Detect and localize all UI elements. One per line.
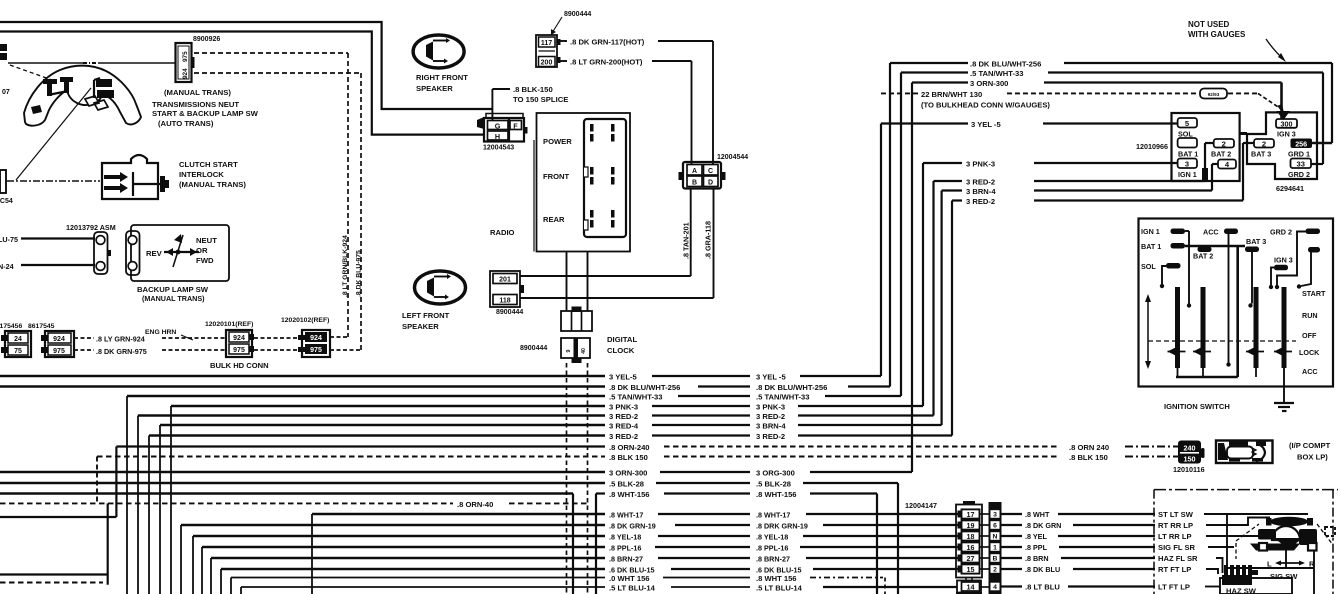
ignition pin SOL: [1166, 263, 1181, 269]
svg-text:2: 2: [1262, 140, 1266, 149]
svg-text:RUN: RUN: [1302, 311, 1318, 320]
svg-text:3 RED-2: 3 RED-2: [966, 178, 995, 187]
svg-text:(TO BULKHEAD CONN W/GAUGES): (TO BULKHEAD CONN W/GAUGES): [921, 101, 1050, 110]
svg-text:ST LT SW: ST LT SW: [1158, 510, 1194, 519]
wire sig sw bottom rail: [1227, 567, 1314, 569]
pin BAT 1: [1178, 138, 1197, 148]
svg-text:3 PNK-3: 3 PNK-3: [966, 160, 995, 169]
svg-text:17: 17: [967, 510, 975, 519]
clutch start interlock outline: [102, 155, 158, 199]
connector strip cell 2: [990, 565, 1000, 574]
ignition switch bar 3: [1254, 287, 1259, 368]
digital clock connector lower: [561, 338, 590, 358]
ignition travel double arrow: [1147, 301, 1149, 362]
svg-text:INTERLOCK: INTERLOCK: [179, 170, 224, 179]
svg-text:200: 200: [541, 60, 553, 67]
svg-text:IGN 1: IGN 1: [1141, 227, 1160, 236]
wire .8 BRN to HAZ FL SR: [980, 557, 991, 559]
svg-text:B: B: [993, 556, 998, 563]
svg-text:8900926: 8900926: [193, 36, 220, 43]
wire bus .8 BRN-27: [211, 557, 605, 560]
svg-text:REV: REV: [146, 249, 163, 258]
wire .8 YEL to LT RR LP: [980, 535, 991, 537]
svg-text:SOL: SOL: [1141, 262, 1156, 271]
connector strip cell 3: [990, 510, 1000, 519]
svg-text:.8 LT BLU: .8 LT BLU: [1025, 583, 1060, 592]
svg-text:3 RED-2: 3 RED-2: [756, 412, 785, 421]
svg-text:33: 33: [1296, 160, 1304, 169]
svg-text:START & BACKUP LAMP SW: START & BACKUP LAMP SW: [152, 109, 259, 118]
svg-text:240: 240: [1184, 444, 1196, 453]
ignition dashed lock line: [1148, 340, 1296, 342]
wire bus .8 ORN-240: [0, 516, 116, 518]
svg-text:117: 117: [541, 40, 552, 47]
svg-text:HAZ SW: HAZ SW: [1226, 587, 1257, 594]
connector strip cell 1: [990, 543, 1000, 552]
sig sw left contact blob: [1258, 529, 1276, 540]
svg-text:.8 DK BLU: .8 DK BLU: [1025, 565, 1060, 574]
svg-text:12004544: 12004544: [717, 154, 748, 161]
connector strip cell 6: [990, 521, 1000, 530]
svg-text:.8 LT GRN/BLK-924: .8 LT GRN/BLK-924: [342, 235, 349, 297]
wire .8 DK BLU-75: [21, 237, 95, 239]
svg-text:924: 924: [310, 335, 322, 342]
svg-text:CLUTCH START: CLUTCH START: [179, 160, 238, 169]
wire .8 DK GRN to RT RR LP: [980, 524, 991, 526]
wire 3 BRN-4 top: [942, 189, 962, 191]
wire dashed .8 DK GRN-975: [74, 349, 94, 351]
clutch interlock terminal arrows: [104, 175, 120, 179]
backup lamp switch box: [131, 225, 229, 281]
wire radio to clock left: [566, 252, 568, 312]
ignition pin BAT2: [1198, 247, 1212, 253]
svg-text:.8 DK GRN-117(HOT): .8 DK GRN-117(HOT): [570, 38, 645, 47]
connector 8900444 (117/200): [536, 35, 557, 67]
connector 12004544 A/C/B/D: [683, 162, 721, 189]
svg-text:POWER: POWER: [543, 137, 572, 146]
svg-text:12020102(REF): 12020102(REF): [281, 317, 329, 324]
svg-text:F: F: [513, 122, 518, 131]
svg-text:3: 3: [1185, 160, 1189, 169]
wire 22 BRN/WHT 130 dashed: [881, 92, 919, 94]
wire clock pin9 dashed: [566, 363, 568, 594]
svg-text:3 RED-4: 3 RED-4: [609, 422, 639, 431]
wire bus 3 PNK-3: [171, 405, 605, 408]
connector 12010116 (240/150): [1178, 441, 1201, 464]
svg-text:24: 24: [14, 336, 22, 343]
svg-text:BOX LP): BOX LP): [1297, 453, 1328, 462]
svg-text:GRD 1: GRD 1: [1288, 150, 1310, 159]
connector 12020101: [226, 330, 252, 357]
svg-text:3 RED-2: 3 RED-2: [609, 432, 638, 441]
wire bus .8 YEL-18: [193, 535, 605, 538]
svg-text:OR: OR: [196, 246, 208, 255]
svg-text:3 RED-2: 3 RED-2: [756, 432, 785, 441]
pin 2 BAT 3: [1254, 139, 1274, 148]
sig sw assembly border right: [1332, 490, 1334, 594]
svg-text:40: 40: [581, 348, 587, 354]
svg-text:(AUTO TRANS): (AUTO TRANS): [158, 119, 214, 128]
svg-text:.8 DK BLU/WHT-256: .8 DK BLU/WHT-256: [756, 383, 827, 392]
wire bus 3 RED-2 second: [149, 434, 605, 437]
svg-text:.8 YEL: .8 YEL: [1025, 532, 1047, 541]
wire stub bottom-left dashed: [0, 582, 103, 584]
svg-text:H: H: [495, 132, 500, 141]
ignition bar stubs: [1177, 368, 1179, 377]
svg-text:.8 DK BLU-975: .8 DK BLU-975: [356, 250, 363, 297]
wire HAZ FL SR into switch: [1216, 558, 1223, 573]
wire dashed 975 from connector 8900926: [194, 72, 361, 74]
svg-text:.8 WHT-156: .8 WHT-156: [756, 490, 797, 499]
svg-text:.8 DK BLU/WHT-256: .8 DK BLU/WHT-256: [609, 383, 680, 392]
wire radio to clock right: [587, 252, 589, 312]
digital clock connector upper: [572, 307, 582, 313]
wire bar4 to ground: [1283, 368, 1285, 403]
svg-text:.8 DK GRN-975: .8 DK GRN-975: [96, 347, 147, 356]
svg-text:N: N: [993, 534, 998, 541]
svg-text:.8 WHT: .8 WHT: [1025, 510, 1050, 519]
wire bowtie down: [1285, 549, 1287, 568]
svg-text:IGNITION SWITCH: IGNITION SWITCH: [1164, 402, 1230, 411]
wire .8 LT BLU to LT FT LP: [980, 586, 991, 588]
wire RT RR LP into switch: [1206, 518, 1270, 526]
sig sw assembly border left: [1153, 490, 1155, 594]
wire .8 WHT to ST LT SW: [980, 513, 991, 515]
svg-text:TRANSMISSIONS NEUT: TRANSMISSIONS NEUT: [152, 100, 239, 109]
svg-text:.8 ORN-40: .8 ORN-40: [457, 500, 493, 509]
ignition switch box: [1139, 219, 1334, 387]
crescent contact T-pins: [43, 79, 57, 84]
svg-text:12013792 ASM: 12013792 ASM: [66, 223, 116, 232]
left edge connector 2: [0, 170, 6, 193]
svg-text:.5 BLK-28: .5 BLK-28: [756, 480, 791, 489]
wire 3 RED-2b top: [952, 199, 962, 201]
wire .8 DK BLU to RT FT LP: [980, 568, 991, 570]
wire dashed vertical 975 run: [360, 73, 362, 350]
wire dashed 12020102 to vertical 975: [330, 349, 361, 351]
svg-text:.5 BLK-28: .5 BLK-28: [609, 480, 644, 489]
svg-text:FWD: FWD: [196, 256, 214, 265]
haz sw comb: [1224, 565, 1228, 575]
sig sw contact square left: [1259, 543, 1267, 551]
sig sw pivot dome: [1272, 526, 1300, 540]
wire .5 TAN/WHT-33 top: [901, 71, 968, 73]
connector 6294641 right body: [1247, 112, 1317, 179]
connector 12004147 column: [956, 505, 982, 578]
wire right-front-speaker to pin F (top line): [0, 22, 492, 109]
radio box: [537, 113, 631, 252]
svg-text:256: 256: [1295, 140, 1307, 149]
svg-text:3 ORN-300: 3 ORN-300: [970, 79, 1008, 88]
pin 5 SOL: [1178, 118, 1197, 128]
pin 4: [1218, 160, 1236, 169]
svg-text:.8 DK GRN-19: .8 DK GRN-19: [609, 522, 656, 531]
backup lamp switch connector: [126, 231, 140, 275]
svg-text:.8 TAN-201: .8 TAN-201: [682, 222, 691, 259]
svg-text:89175456: 89175456: [0, 323, 22, 330]
wire clock pin40 dashed: [587, 363, 589, 594]
left front speaker icon: [415, 271, 466, 304]
svg-text:8900444: 8900444: [564, 11, 591, 18]
svg-text:.5 LT BLU-14: .5 LT BLU-14: [756, 584, 803, 593]
connector 8900444 (201/118): [490, 271, 520, 307]
svg-text:NEUT: NEUT: [196, 236, 217, 245]
wire SIG FL SR into switch: [1208, 546, 1234, 548]
svg-text:LOCK: LOCK: [1299, 348, 1320, 357]
svg-text:GRD 2: GRD 2: [1288, 170, 1310, 179]
svg-text:12010966: 12010966: [1136, 142, 1168, 151]
ignition switch bar 4: [1282, 287, 1287, 368]
wire 3 RED-2 top: [934, 180, 963, 182]
svg-text:150: 150: [1184, 455, 1196, 464]
svg-text:.5 TAN/WHT-33: .5 TAN/WHT-33: [756, 393, 809, 402]
svg-text:.8 LY GRN-924: .8 LY GRN-924: [96, 335, 145, 344]
connector cell 18: [958, 533, 962, 540]
wire bus .5 LT BLU-14: [241, 586, 605, 588]
wire bus .8 ORN-40 dashed: [0, 502, 453, 504]
inline connector 12013792: [94, 232, 108, 274]
wire RT FT LP into switch: [1206, 569, 1218, 574]
svg-text:.8 PPL-16: .8 PPL-16: [756, 544, 788, 553]
ignition pin START: [1308, 247, 1320, 253]
svg-text:3 YEL -5: 3 YEL -5: [971, 120, 1001, 129]
wire bus 3 YEL-5: [0, 375, 605, 378]
sig sw contact plate: [1270, 517, 1308, 527]
svg-text:RIGHT FRONT: RIGHT FRONT: [416, 73, 468, 82]
svg-text:B: B: [692, 180, 697, 187]
radio pins FRONT: [590, 167, 594, 175]
svg-text:12004147: 12004147: [905, 501, 937, 510]
ignition pin IGN1: [1171, 229, 1186, 235]
wire bus .8 DK BLU/WHT-256: [0, 385, 605, 388]
svg-text:8900444: 8900444: [496, 309, 523, 316]
wire .8 DK BLU/WHT-256 top: [890, 62, 968, 64]
wire bus .8 DK GRN-19: [181, 524, 605, 527]
svg-text:8900444: 8900444: [520, 345, 547, 352]
wire dashed 12020101 to 12020102 (975): [254, 349, 298, 351]
connector 12010966 left body: [1172, 113, 1240, 181]
svg-text:12010116: 12010116: [1173, 465, 1205, 474]
svg-text:TO 150 SPLICE: TO 150 SPLICE: [513, 95, 568, 104]
svg-text:2: 2: [1222, 140, 1226, 149]
pin 3 IGN 1: [1178, 159, 1197, 169]
svg-text:975: 975: [182, 51, 189, 62]
wire .8 BLK-150 callout: [492, 88, 510, 90]
radio pins REAR: [590, 210, 594, 218]
svg-text:HAZ FL SR: HAZ FL SR: [1158, 554, 1198, 563]
sig sw assembly dash-dot border top: [1154, 489, 1338, 491]
svg-text:9C54: 9C54: [0, 198, 13, 205]
svg-text:4: 4: [993, 584, 997, 591]
sig sw right contact blob: [1299, 529, 1317, 545]
svg-text:BAT 2: BAT 2: [1211, 150, 1231, 159]
svg-text:.8 YEL-18: .8 YEL-18: [609, 533, 641, 542]
connector 12020102: [302, 330, 330, 357]
inline splice on 130 wire: [1200, 89, 1227, 99]
pin 33 GRD 2: [1291, 159, 1312, 169]
svg-text:BACKUP LAMP SW: BACKUP LAMP SW: [137, 285, 209, 294]
ignition pin ACC: [1224, 229, 1238, 235]
svg-text:BULK HD CONN: BULK HD CONN: [210, 361, 269, 370]
svg-text:REAR: REAR: [543, 215, 565, 224]
svg-text:R: R: [1309, 560, 1315, 569]
clutch interlock contact bar: [132, 172, 134, 196]
svg-text:.8 BRN-27: .8 BRN-27: [756, 555, 790, 564]
svg-text:LT RR LP: LT RR LP: [1158, 532, 1192, 541]
svg-text:3 YEL-5: 3 YEL-5: [609, 373, 637, 382]
wire bus 3 BRN-4: [160, 424, 605, 427]
radio connector cavity: [584, 119, 626, 237]
svg-text:3: 3: [993, 512, 997, 519]
svg-text:975: 975: [53, 348, 65, 355]
svg-text:GRD 2: GRD 2: [1270, 228, 1292, 237]
svg-text:SIG SW: SIG SW: [1270, 572, 1298, 581]
svg-text:3 ORG-300: 3 ORG-300: [756, 469, 795, 478]
svg-text:BAT 3: BAT 3: [1251, 150, 1271, 159]
svg-text:CLOCK: CLOCK: [607, 346, 635, 355]
wire 200 vertical to connector A: [691, 61, 693, 165]
svg-text:.0 WHT 156: .0 WHT 156: [609, 574, 650, 583]
ignition switch bar 2: [1201, 287, 1206, 368]
svg-text:BAT 2: BAT 2: [1193, 252, 1213, 261]
arrow junction on IGN3: [1277, 111, 1291, 120]
left edge connector stubs: [0, 44, 7, 51]
svg-text:BAT 1: BAT 1: [1141, 242, 1161, 251]
svg-text:.8 WHT-17: .8 WHT-17: [756, 511, 790, 520]
connector cell 16: [958, 544, 962, 551]
connector cell 27: [958, 555, 962, 562]
svg-text:A: A: [692, 168, 697, 175]
svg-text:START: START: [1302, 289, 1326, 298]
svg-text:IGN 1: IGN 1: [1178, 170, 1197, 179]
svg-text:SPEAKER: SPEAKER: [416, 84, 453, 93]
svg-text:924: 924: [53, 336, 65, 343]
ground symbol ignition: [1274, 402, 1294, 404]
wire .8 LT GRN-200(HOT): [561, 60, 568, 62]
svg-text:LEFT FRONT: LEFT FRONT: [402, 311, 450, 320]
connector bottom partial cell: [957, 593, 981, 594]
svg-text:WITH GAUGES: WITH GAUGES: [1188, 30, 1246, 39]
svg-text:300: 300: [1281, 119, 1293, 128]
svg-text:975: 975: [310, 347, 322, 354]
ignition pin IGN3: [1274, 265, 1288, 271]
svg-text:L: L: [1267, 560, 1272, 569]
connector 12004543 G/F/H: [477, 117, 484, 129]
wire dashed diagonal 130 to IGN3: [1258, 93, 1281, 109]
connector 24/75: [5, 331, 31, 357]
svg-text:3 ORN-300: 3 ORN-300: [609, 469, 647, 478]
wire bus .8 WHT-17: [312, 513, 605, 516]
svg-text:.5 LT BLU-14: .5 LT BLU-14: [609, 584, 656, 593]
svg-text:RT RR LP: RT RR LP: [1158, 521, 1193, 530]
svg-text:G: G: [495, 122, 501, 131]
ip compartment lamp icon: [1216, 441, 1273, 464]
svg-text:27: 27: [967, 554, 975, 563]
connector cell 17: [958, 511, 962, 518]
svg-text:.8 WHT-156: .8 WHT-156: [609, 490, 650, 499]
wire GRN-24: [21, 264, 95, 266]
svg-text:.8 YEL-18: .8 YEL-18: [756, 533, 788, 542]
wire dash-dot from left connector: [7, 180, 100, 182]
svg-text:.8 ORN-240: .8 ORN-240: [609, 443, 650, 452]
svg-text:.8 WHT 156: .8 WHT 156: [756, 574, 797, 583]
svg-text:BAT 1: BAT 1: [1178, 150, 1198, 159]
wire bus 3 ORN-300: [0, 471, 605, 474]
transmission neut start & backup lamp switch (crescent): [24, 66, 141, 126]
radio pins POWER: [590, 124, 594, 132]
ignition pin GRD2: [1306, 229, 1321, 235]
connector second column (black strip): [989, 502, 1002, 594]
svg-text:.8 BRN-27: .8 BRN-27: [609, 555, 643, 564]
svg-text:6294641: 6294641: [1276, 184, 1304, 193]
wire dashed 12020102 to vertical 924: [330, 336, 348, 338]
wire bus .8 WHT 156 dashed row: [231, 577, 605, 579]
wire bus .5 TAN/WHT-33: [127, 395, 605, 398]
connector cell 15: [958, 566, 962, 573]
wire bus .6 DK BLU-15: [221, 568, 605, 571]
svg-text:.5 TAN/WHT-33: .5 TAN/WHT-33: [970, 69, 1023, 78]
svg-text:C: C: [708, 168, 713, 175]
svg-text:N-24: N-24: [0, 262, 14, 271]
wire bus .8 BLK 150 dashed: [97, 456, 605, 458]
ignition pin BAT3: [1245, 247, 1259, 253]
connector 8900926 body (924/975): [176, 43, 192, 82]
svg-text:SIG FL SR: SIG FL SR: [1158, 543, 1196, 552]
svg-text:D: D: [708, 180, 713, 187]
svg-text:ACC: ACC: [1203, 228, 1219, 237]
svg-text:FRONT: FRONT: [543, 172, 570, 181]
svg-text:975: 975: [233, 347, 245, 354]
svg-text:1: 1: [993, 545, 997, 552]
svg-text:.8 LT GRN-200(HOT): .8 LT GRN-200(HOT): [570, 58, 643, 67]
svg-text:3 PNK-3: 3 PNK-3: [609, 403, 638, 412]
svg-text:SPEAKER: SPEAKER: [402, 322, 439, 331]
svg-text:.8 DK BLU/WHT-256: .8 DK BLU/WHT-256: [970, 60, 1041, 69]
svg-text:IGN 3: IGN 3: [1277, 130, 1296, 139]
svg-text:3 RED-2: 3 RED-2: [609, 412, 638, 421]
pointer arrow not-used: [1266, 39, 1282, 58]
sig sw rotor bowtie: [1274, 538, 1303, 549]
svg-text:15: 15: [967, 565, 975, 574]
svg-text:BAT 3: BAT 3: [1246, 237, 1266, 246]
svg-text:924: 924: [233, 335, 245, 342]
svg-text:LU-75: LU-75: [0, 235, 18, 244]
svg-text:.8 BLK 150: .8 BLK 150: [609, 453, 648, 462]
svg-text:DIGITAL: DIGITAL: [607, 335, 637, 344]
wire .8 GRA-118 vertical: [713, 189, 715, 299]
wire .8 PPL to SIG FL SR: [980, 546, 991, 548]
svg-text:.8 DRK GRN-19: .8 DRK GRN-19: [756, 522, 808, 531]
ignition bus vertical: [1236, 247, 1239, 377]
svg-text:IGN 3: IGN 3: [1274, 256, 1293, 265]
svg-text:3 RED-2: 3 RED-2: [966, 197, 995, 206]
sig sw dashed linkages: [1236, 524, 1259, 541]
connector 924/975 bulkhead: [45, 331, 74, 357]
haz sw box: [1220, 578, 1292, 594]
wire dashed diagonal to crescent: [10, 65, 52, 80]
svg-text:RADIO: RADIO: [490, 228, 515, 237]
wire ST LT SW into switch: [1204, 513, 1308, 515]
svg-text:3 BRN-4: 3 BRN-4: [756, 422, 786, 431]
wire 3 ORN-300 top: [912, 81, 968, 83]
wire 117 vertical to connector C: [712, 41, 714, 165]
svg-text:9: 9: [566, 349, 572, 352]
wire .8 TAN-201 vertical: [690, 189, 692, 277]
diagonal lead line crescent to connector: [16, 88, 91, 180]
wire LT RR LP into switch: [1206, 531, 1262, 536]
backup switch lever: [173, 235, 183, 267]
svg-text:.8 ORN 240: .8 ORN 240: [1069, 443, 1109, 452]
